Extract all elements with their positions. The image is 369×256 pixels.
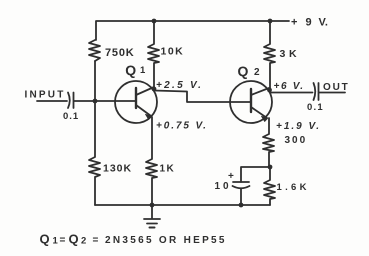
resistor R1 750K (89, 40, 100, 61)
svg-text:+0.75 V.: +0.75 V. (156, 121, 208, 132)
svg-text:+6 V.: +6 V. (274, 81, 305, 92)
svg-text:9: 9 (306, 17, 312, 29)
svg-text:2: 2 (254, 67, 260, 78)
node emitter network junction (268, 165, 273, 170)
label Q2 (238, 63, 261, 79)
svg-text:1K: 1K (160, 164, 176, 175)
svg-text:0.1: 0.1 (63, 111, 79, 122)
wire output lead (319, 92, 345, 94)
node base divider junction (93, 99, 98, 104)
svg-text:Q: Q (40, 232, 50, 247)
svg-text:1: 1 (53, 236, 59, 247)
svg-text:Q: Q (69, 232, 79, 247)
svg-text:1.6K: 1.6K (277, 182, 310, 193)
resistor R6 300 (263, 118, 274, 167)
resistor R2 130K (89, 101, 100, 205)
wire bypass branch bottom (240, 189, 242, 205)
svg-text:2N3565 OR HEP55: 2N3565 OR HEP55 (105, 235, 227, 246)
svg-text:+: + (291, 17, 297, 29)
wire cap to Q1 base (74, 100, 136, 102)
resistor R7 1.6K (264, 167, 275, 205)
svg-text:10: 10 (215, 181, 232, 192)
resistor R5 3K (264, 21, 275, 90)
svg-text:750K: 750K (105, 47, 135, 59)
svg-text:1: 1 (140, 65, 146, 76)
node emitter-rail junction (150, 203, 155, 208)
node Q1 collector junction (152, 87, 157, 92)
node rail-10K junction (152, 19, 157, 24)
transistor Q1 (115, 81, 157, 123)
svg-text:=: = (60, 235, 66, 246)
svg-text:=: = (93, 235, 99, 246)
wire input lead (37, 100, 67, 102)
label Q1 (125, 62, 146, 78)
capacitor C3 10uF bypass (233, 182, 250, 188)
node bypass-rail junction (239, 203, 244, 208)
svg-text:+2.5 V.: +2.5 V. (156, 80, 203, 91)
svg-text:3K: 3K (280, 48, 301, 60)
resistor R3 10K (148, 21, 159, 89)
svg-text:V.: V. (319, 17, 328, 29)
svg-text:OUT: OUT (323, 82, 350, 93)
label +9V (291, 17, 328, 29)
wire 750K to base node (94, 61, 96, 100)
node Q2 collector junction (267, 88, 272, 93)
svg-text:+1.9 V.: +1.9 V. (276, 121, 321, 132)
svg-text:10K: 10K (161, 46, 185, 58)
svg-text:0.1: 0.1 (307, 102, 324, 113)
label caption Q1=Q2=2N3565 OR HEP55 (40, 232, 227, 247)
wire Q1 collector to Q2 base (154, 91, 251, 103)
svg-text:2: 2 (81, 236, 86, 247)
svg-text:300: 300 (285, 135, 308, 146)
svg-text:130K: 130K (103, 163, 132, 175)
transistor Q2 (230, 81, 272, 123)
svg-text:INPUT: INPUT (25, 90, 66, 101)
svg-text:Q: Q (125, 62, 136, 78)
wire collector to output cap (270, 91, 313, 93)
wire top +9V rail (96, 21, 289, 40)
capacitor C2 0.1 output (314, 83, 319, 100)
ground (144, 205, 160, 228)
svg-text:Q: Q (238, 63, 249, 79)
wire ground rail bottom (95, 204, 270, 206)
node rail-3K junction (268, 19, 273, 24)
wire bypass branch top (241, 167, 270, 182)
resistor R4 1K emitter Q1 (146, 117, 157, 205)
capacitor C1 0.1 input (68, 93, 74, 109)
